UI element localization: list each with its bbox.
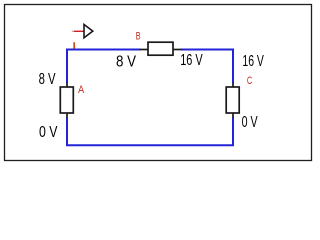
resistor A [60, 83, 73, 119]
resistor C [226, 83, 239, 119]
resistor C designator [247, 75, 252, 87]
voltage label 8 V left [39, 71, 56, 88]
wire top-right corner segment [181, 50, 233, 84]
voltage label 16 V top [180, 52, 203, 69]
resistor B [140, 42, 182, 55]
svg-text:16 V: 16 V [242, 53, 264, 70]
node I label [73, 42, 75, 48]
voltage label 16 V right [242, 53, 264, 70]
svg-text:C: C [247, 75, 252, 87]
svg-text:8 V: 8 V [116, 53, 137, 70]
wire bottom segment [67, 118, 233, 146]
current arrow probe [72, 25, 93, 38]
svg-text:B: B [136, 31, 141, 43]
svg-text:0 V: 0 V [242, 114, 258, 131]
resistor B designator [136, 31, 141, 43]
voltage label 8 V top [116, 53, 137, 70]
voltage label 0 V left [39, 124, 58, 141]
svg-text:8 V: 8 V [39, 71, 56, 88]
svg-text:A: A [78, 84, 85, 96]
svg-text:0 V: 0 V [39, 124, 58, 141]
wire top-left corner segment [67, 50, 141, 84]
voltage label 0 V right [242, 114, 258, 131]
resistor A designator [78, 84, 85, 96]
svg-text:16 V: 16 V [180, 52, 203, 69]
